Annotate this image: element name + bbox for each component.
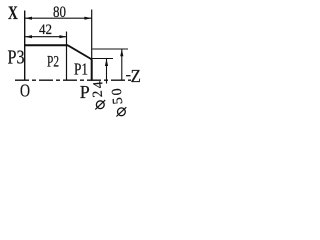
svg-text:2: 2: [91, 90, 107, 98]
svg-text:42: 42: [39, 22, 52, 38]
svg-text:0: 0: [110, 88, 126, 96]
svg-text:Z: Z: [131, 66, 141, 86]
svg-text:P2: P2: [47, 54, 59, 71]
svg-text:X: X: [8, 3, 18, 24]
svg-text:4: 4: [91, 81, 107, 89]
svg-text:O: O: [20, 81, 30, 101]
svg-text:80: 80: [53, 4, 66, 21]
svg-text:P3: P3: [8, 46, 25, 68]
svg-text:P: P: [80, 82, 90, 102]
svg-text:5: 5: [111, 97, 127, 105]
svg-text:P1: P1: [74, 59, 88, 78]
